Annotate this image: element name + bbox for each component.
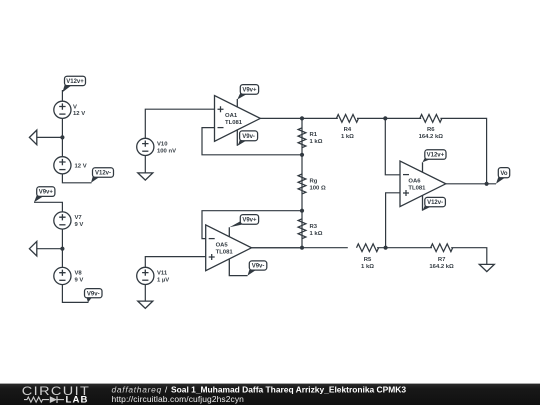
svg-text:1 kΩ: 1 kΩ xyxy=(361,264,374,270)
svg-text:V10: V10 xyxy=(157,142,168,148)
svg-text:R7: R7 xyxy=(438,257,446,263)
svg-text:12 V: 12 V xyxy=(75,163,87,169)
svg-text:R4: R4 xyxy=(344,127,352,133)
svg-text:V8: V8 xyxy=(75,271,83,277)
svg-text:V9v+: V9v+ xyxy=(39,190,54,196)
svg-text:1 kΩ: 1 kΩ xyxy=(310,231,323,237)
svg-text:TL081: TL081 xyxy=(408,186,426,192)
svg-text:V9v-: V9v- xyxy=(87,291,100,297)
svg-text:TL081: TL081 xyxy=(225,120,243,126)
svg-text:V12v-: V12v- xyxy=(427,200,443,206)
svg-text:1 kΩ: 1 kΩ xyxy=(310,139,323,145)
svg-text:LAB: LAB xyxy=(66,395,89,405)
svg-text:9 V: 9 V xyxy=(75,277,84,283)
svg-text:R3: R3 xyxy=(310,224,318,230)
svg-text:OA6: OA6 xyxy=(408,179,421,185)
svg-text:V7: V7 xyxy=(75,215,83,221)
svg-text:V9v-: V9v- xyxy=(242,134,255,140)
svg-text:V11: V11 xyxy=(157,271,168,277)
svg-text:V12v+: V12v+ xyxy=(427,153,445,159)
svg-text:Rg: Rg xyxy=(310,178,318,184)
svg-text:100 nV: 100 nV xyxy=(157,148,176,154)
svg-text:http://circuitlab.com/cufjug2h: http://circuitlab.com/cufjug2hs2cyn xyxy=(112,394,245,404)
svg-text:Vo: Vo xyxy=(500,171,508,177)
svg-text:V12v+: V12v+ xyxy=(66,79,84,85)
svg-text:daffathareq / Soal 1_Muhamad D: daffathareq / Soal 1_Muhamad Daffa Thare… xyxy=(112,385,407,395)
svg-text:12 V: 12 V xyxy=(73,111,85,117)
svg-text:9 V: 9 V xyxy=(75,222,84,228)
svg-text:V9v-: V9v- xyxy=(252,264,265,270)
svg-text:R6: R6 xyxy=(427,127,435,133)
svg-text:OA5: OA5 xyxy=(216,243,229,249)
svg-text:R5: R5 xyxy=(364,257,372,263)
svg-text:V9v+: V9v+ xyxy=(242,218,257,224)
svg-text:1 kΩ: 1 kΩ xyxy=(341,134,354,140)
svg-text:100 Ω: 100 Ω xyxy=(310,185,326,191)
svg-text:V12v-: V12v- xyxy=(95,171,111,177)
svg-text:164.2 kΩ: 164.2 kΩ xyxy=(419,134,444,140)
svg-text:V: V xyxy=(73,104,77,110)
svg-text:OA1: OA1 xyxy=(225,113,238,119)
svg-text:1 µV: 1 µV xyxy=(157,277,169,283)
svg-text:TL081: TL081 xyxy=(216,250,234,256)
svg-text:R1: R1 xyxy=(310,132,318,138)
svg-text:164.2 kΩ: 164.2 kΩ xyxy=(429,264,454,270)
svg-text:V9v+: V9v+ xyxy=(242,88,257,94)
